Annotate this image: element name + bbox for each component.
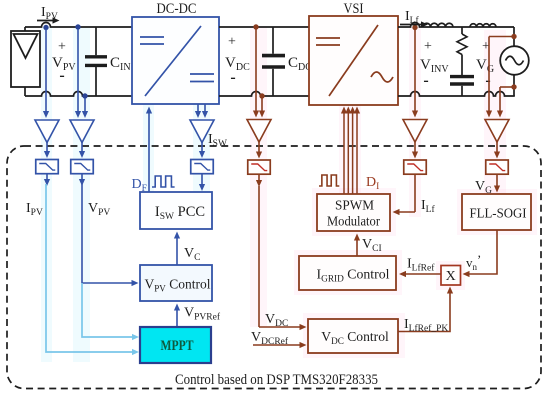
wire IPV amp to filter (44, 143, 50, 159)
label IPV signal (26, 201, 43, 218)
label VCI (362, 237, 382, 254)
svg-text:-: - (485, 72, 490, 89)
label DF (132, 177, 147, 194)
wire ISW filter to PCC (199, 174, 205, 191)
label VPV plus (58, 40, 66, 55)
converter DC-DC box (132, 17, 219, 104)
wire VCI (354, 234, 360, 257)
controller VPV Control (140, 265, 212, 301)
label VG (476, 57, 494, 75)
label VPVRef (184, 306, 221, 323)
wire VDC filter out (256, 174, 262, 187)
wire Rd to Cf (461, 55, 463, 76)
controller ISW PCC (140, 192, 212, 229)
label VDC (225, 55, 250, 73)
controller VDC Control (308, 319, 398, 353)
wire top rail VSI to grid (hop at ILf sensor) (398, 23, 514, 28)
PV panel (11, 31, 40, 87)
amplifier VPV (70, 120, 94, 143)
wire bottom rail DC-DC to VSI (hop) (219, 92, 309, 97)
node VDC- tap (259, 93, 264, 98)
inverter VSI box (309, 16, 398, 105)
label VINV (420, 57, 449, 75)
wire top rail PV to DC-DC (hop at IPV sensor) (25, 23, 132, 28)
wire VDC control to multiplier (398, 287, 453, 332)
label X (446, 269, 456, 284)
wire IPV to MPPT (46, 184, 139, 355)
label ILf signal (421, 198, 435, 215)
DSP dashed boundary (7, 146, 541, 389)
wire VG+ sense drop (486, 37, 492, 118)
label VG minus (485, 72, 490, 89)
wire ILf amp to filter (412, 142, 418, 159)
label Modulator (327, 215, 380, 230)
waveform DF pulses (152, 176, 175, 187)
node VPV- tap (82, 93, 87, 98)
wire FLL out to multiplier (463, 230, 498, 277)
controller MPPT (140, 327, 211, 363)
label ILfRef (407, 257, 435, 274)
svg-text:-: - (423, 72, 428, 89)
wire bottom rail PV to DC-DC (hops) (25, 92, 132, 97)
wire VPV amp to filter (79, 143, 85, 159)
wire PV top stub (24, 27, 26, 31)
label DI (366, 175, 379, 192)
label VDC plus (228, 35, 236, 50)
amplifier VDC (247, 120, 271, 143)
wire VDC+ sense drop (253, 29, 259, 118)
label FLL-SOGI (470, 207, 527, 222)
wire VG amp to filter (494, 142, 500, 159)
label MPPT (161, 338, 194, 354)
filter VDC (248, 160, 271, 174)
wire VPV- sense drop (82, 98, 88, 118)
wire VPV+ sense drop (75, 29, 81, 118)
wire ILf to SPWM (393, 174, 416, 215)
svg-text:VSI: VSI (344, 1, 364, 17)
label IPV with arrow (37, 5, 60, 24)
node VPV+ tap (75, 24, 80, 29)
label vn prime (466, 252, 481, 272)
node ILf tap (412, 25, 417, 30)
svg-text:SPWM: SPWM (335, 199, 375, 214)
label ILf with arrow (400, 9, 428, 28)
svg-text:+: + (424, 39, 432, 54)
svg-text:Control based on DSP TMS320F28: Control based on DSP TMS320F28335 (175, 372, 378, 388)
svg-text:X: X (446, 269, 456, 284)
label VINV plus (424, 39, 432, 54)
svg-text:DC-DC: DC-DC (157, 1, 197, 17)
amplifier VG (485, 120, 509, 143)
filter VPV (71, 160, 94, 174)
label CDC (288, 55, 312, 73)
filter ILf (404, 160, 427, 174)
node VDC+ tap (253, 24, 258, 29)
controller IGRID Control (299, 256, 396, 290)
wire VDC amp to filter (256, 142, 262, 159)
label ISW at amplifier (208, 132, 227, 149)
wire VPVRef (174, 304, 180, 328)
label VDCRef (251, 330, 289, 347)
wire grid drop (513, 27, 515, 47)
label VG signal (475, 179, 492, 196)
capacitor CIN (85, 27, 107, 96)
node VG+ tap (511, 34, 516, 39)
wire VG+ tap horiz (489, 36, 514, 38)
label VPV Control (145, 277, 211, 294)
wire top rail DC-DC to VSI (219, 26, 309, 28)
wire multiplier to IGRID (399, 271, 441, 277)
amplifier IPV (35, 120, 59, 143)
AC grid source (500, 46, 529, 75)
svg-text:-: - (59, 67, 64, 84)
label VPV (52, 55, 76, 73)
node IPV tap (43, 25, 48, 30)
wire IPV sense drop (43, 29, 49, 118)
multiplier X box (441, 266, 461, 286)
filter VG (486, 160, 509, 174)
svg-text:+: + (58, 40, 66, 55)
wire VDCRef (253, 342, 307, 348)
wire IPV filter out (44, 174, 50, 186)
label VINV minus (423, 72, 428, 89)
label DC-DC (157, 1, 197, 17)
modulator SPWM (317, 194, 390, 231)
wire filter branch top (461, 27, 463, 34)
amplifier ILf (403, 120, 427, 143)
amplifier ISW (190, 120, 214, 143)
wire VG filter to FLL (494, 174, 500, 192)
label ILfRefPK (404, 317, 448, 334)
wire VG- tap horiz (500, 86, 514, 88)
label SPWM (335, 199, 375, 214)
wire ISW amp to filter (199, 143, 205, 159)
wire ISW sense drop b (202, 104, 208, 118)
wire VDC signal to VDC control (259, 186, 307, 330)
label VSI (344, 1, 364, 17)
wire VPV to VPV control (82, 184, 139, 286)
wire VC (174, 232, 180, 266)
inductor Lf1 (423, 23, 453, 27)
label VDC minus (230, 69, 235, 86)
label ISW PCC (155, 204, 205, 222)
wire DF PCC to DC-DC (146, 107, 152, 193)
wire VDC- sense drop (259, 98, 265, 118)
label DSP caption (175, 372, 378, 388)
pll FLL-SOGI (462, 194, 531, 230)
label IGRID Control (317, 267, 390, 285)
label VDC Control (321, 329, 389, 346)
svg-text:Modulator: Modulator (327, 215, 380, 230)
capacitor Cf (450, 77, 474, 96)
wire PV bottom stub (24, 87, 26, 96)
label VG plus (482, 39, 490, 54)
svg-text:+: + (228, 35, 236, 50)
resistor Rd (457, 34, 467, 55)
label VPV minus (59, 67, 64, 84)
svg-text:MPPT: MPPT (161, 338, 194, 354)
wire ILf sense drop (412, 29, 418, 118)
wire VPV filter out (79, 174, 85, 186)
label CIN (110, 55, 131, 73)
label VC (184, 246, 200, 263)
label VDC signal (265, 312, 288, 329)
filter IPV (36, 160, 59, 174)
svg-text:-: - (230, 69, 235, 86)
filter ISW (191, 160, 214, 174)
waveform DI pulses (319, 175, 339, 186)
svg-text:FLL-SOGI: FLL-SOGI (470, 207, 527, 222)
capacitor CDC (262, 27, 285, 96)
wire ISW sense drop a (195, 104, 201, 118)
node VG- tap (511, 84, 516, 89)
wire VG- sense drop (497, 87, 503, 118)
wire grid to bottom rail (513, 75, 515, 96)
wire bottom rail VSI to grid (hops) (398, 92, 515, 97)
wire gate lines SPWM to VSI (341, 107, 360, 195)
inductor Lf2 (470, 24, 496, 27)
wire VPV to MPPT (82, 283, 139, 340)
label VPV signal (88, 201, 110, 218)
